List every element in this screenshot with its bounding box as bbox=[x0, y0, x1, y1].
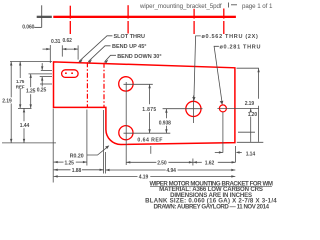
hole4 callout leader bbox=[214, 46, 222, 103]
dim 1.875 bbox=[149, 84, 151, 104]
hole4 center lines bbox=[217, 107, 258, 109]
svg-text:DRAWN: AUBREY GAYLORD — 11 NOV: DRAWN: AUBREY GAYLORD — 11 NOV 2014 bbox=[153, 204, 269, 211]
dim 1.25 line bbox=[30, 74, 32, 87]
bend up callout leader bbox=[88, 46, 110, 62]
dim 4.94 bottom bbox=[106, 169, 166, 171]
bend line 2 bbox=[103, 63, 105, 107]
hole 4 small bbox=[219, 105, 226, 112]
svg-text:2.50: 2.50 bbox=[157, 161, 167, 167]
R0.20 leader bbox=[87, 146, 109, 155]
right edge ext below bbox=[235, 146, 237, 162]
svg-text:1.88: 1.88 bbox=[72, 168, 82, 174]
dim 1.14 row bbox=[215, 151, 223, 153]
svg-text:1.875: 1.875 bbox=[142, 107, 156, 113]
svg-text:0.31: 0.31 bbox=[51, 39, 61, 45]
dim 1.62 bottom bbox=[193, 161, 202, 163]
dim 2.19 right bbox=[258, 68, 260, 99]
svg-text:R0.20: R0.20 bbox=[70, 153, 84, 159]
hole1 center lines bbox=[124, 82, 259, 165]
dim 1.20 right bbox=[250, 108, 252, 110]
dim 2.50 bottom bbox=[126, 161, 156, 163]
svg-text:1.25: 1.25 bbox=[65, 160, 75, 166]
svg-text:REF: REF bbox=[16, 84, 25, 89]
dim 1.44 line bbox=[23, 108, 25, 121]
svg-text:BEND DOWN 30°: BEND DOWN 30° bbox=[117, 54, 161, 60]
bottom extension lines bbox=[53, 109, 235, 183]
svg-text:BEND UP 45°: BEND UP 45° bbox=[112, 44, 147, 50]
0.060 thickness dimension bbox=[34, 5, 41, 27]
slot callout bbox=[79, 36, 222, 104]
leader arrowheads bbox=[79, 59, 224, 104]
svg-text:0.060: 0.060 bbox=[22, 24, 34, 30]
hole 2 bbox=[119, 126, 133, 140]
dim 1.75 REF line bbox=[19, 62, 21, 79]
hole3 center lines bbox=[163, 108, 203, 110]
title block bbox=[145, 181, 277, 211]
svg-text:0.62: 0.62 bbox=[63, 38, 73, 44]
dim 1.88 bottom bbox=[54, 169, 71, 171]
side view bend tick 4 bbox=[223, 9, 225, 19]
svg-text:page 1 of 1: page 1 of 1 bbox=[242, 3, 273, 10]
hole3 callout leader bbox=[194, 36, 201, 100]
svg-text:0.25: 0.25 bbox=[37, 88, 47, 94]
top slot dims bbox=[43, 45, 79, 63]
slot bbox=[62, 70, 79, 78]
hole 1 bbox=[119, 77, 133, 91]
hole 3 bbox=[186, 101, 201, 116]
svg-text:ø0.562 THRU (2X): ø0.562 THRU (2X) bbox=[202, 34, 259, 40]
side view bend tick 3 bbox=[193, 9, 195, 19]
svg-text:1.14: 1.14 bbox=[246, 151, 256, 157]
header page label bbox=[228, 3, 230, 8]
left extension lines bbox=[2, 62, 56, 143]
svg-text:SLOT THRU: SLOT THRU bbox=[114, 34, 145, 40]
side view bend tick 2 bbox=[127, 5, 129, 18]
svg-text:1.44: 1.44 bbox=[20, 123, 30, 129]
svg-text:0.938: 0.938 bbox=[159, 121, 171, 127]
side view red bar bbox=[53, 16, 236, 18]
svg-text:2.19: 2.19 bbox=[245, 101, 255, 107]
dim 1.25 bottom bbox=[54, 161, 64, 163]
svg-text:1.20: 1.20 bbox=[248, 112, 258, 118]
svg-text:4.94: 4.94 bbox=[167, 168, 177, 174]
side view bend tick 1 bbox=[70, 5, 224, 34]
svg-text:1.25: 1.25 bbox=[26, 89, 36, 95]
right extension lines bbox=[215, 68, 263, 162]
svg-text:2.19: 2.19 bbox=[2, 99, 12, 105]
hole2 center line bbox=[124, 132, 171, 134]
bend line 1 bbox=[86, 62, 88, 107]
main outline bbox=[54, 62, 235, 145]
side view gray bar segment bbox=[37, 16, 52, 18]
bend down callout leader bbox=[105, 55, 116, 62]
left dim arrows bbox=[10, 62, 43, 143]
dim 4.19 bottom bbox=[54, 175, 138, 177]
svg-text:ø0.281 THRU: ø0.281 THRU bbox=[220, 45, 262, 51]
svg-text:1.62: 1.62 bbox=[205, 161, 215, 167]
dim 0.25 line bbox=[41, 63, 43, 70]
svg-text:4.19: 4.19 bbox=[139, 174, 149, 180]
dim 0.938 bbox=[165, 109, 167, 119]
dim 2.19 line bbox=[10, 62, 12, 98]
slot center marks bbox=[65, 73, 67, 74]
svg-text:wiper_mounting_bracket_5pdf: wiper_mounting_bracket_5pdf bbox=[139, 3, 222, 10]
svg-text:0.64 REF: 0.64 REF bbox=[137, 138, 163, 144]
